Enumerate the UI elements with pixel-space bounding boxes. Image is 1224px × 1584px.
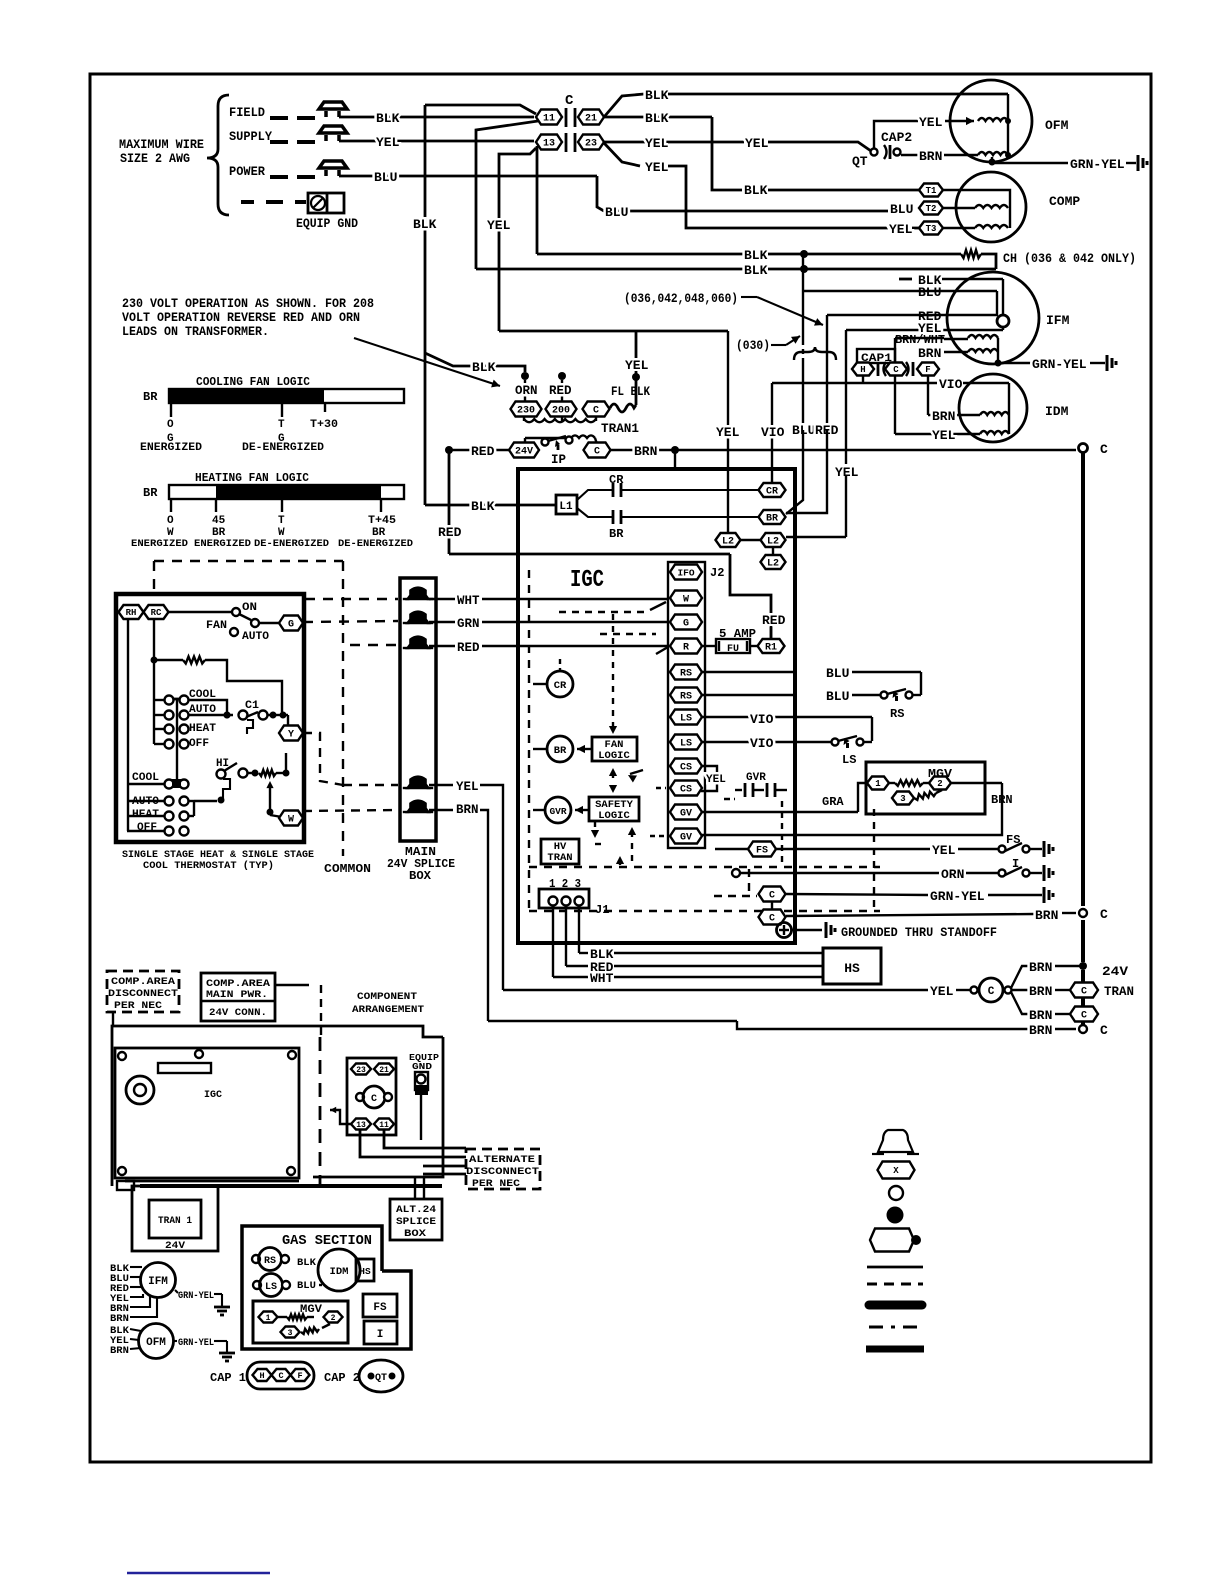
svg-text:H: H [860,365,865,375]
svg-text:ALTERNATE: ALTERNATE [469,1154,535,1166]
wire BRN bottom common [488,1020,737,1022]
wire F down to IDM BRN [927,376,929,415]
svg-text:21: 21 [379,1066,389,1075]
terminal Y [279,726,303,741]
switch RS [881,692,888,699]
arrow into contactor [330,1110,351,1124]
MGV small terminal 1 [259,1312,278,1323]
wire RED to 24V [445,446,453,454]
legend hexagon terminal [878,1162,915,1179]
svg-text:YEL: YEL [919,115,943,130]
terminal G [279,616,303,631]
svg-text:SIZE 2 AWG: SIZE 2 AWG [120,151,190,166]
terminal 200 [546,402,577,417]
legend thick line [869,1301,922,1310]
IDM coil 1 [980,412,1009,415]
MGV resistor 1-2 [889,782,895,784]
svg-text:J1: J1 [595,903,609,917]
svg-text:MAXIMUM WIRE: MAXIMUM WIRE [119,137,204,152]
OFM coil 1 [978,118,1008,121]
relay contact BR [577,508,613,517]
wire BRN from MGV 2 to GV2 [951,782,1002,784]
terminal 21 arr [374,1064,394,1075]
terminal BR [759,510,786,524]
svg-text:24V: 24V [165,1240,186,1252]
svg-text:RH: RH [126,608,137,618]
svg-text:GRN-YEL: GRN-YEL [178,1290,214,1302]
ground [1137,155,1140,171]
terminal 13 arr [351,1119,371,1130]
svg-text:ENERGIZED: ENERGIZED [140,442,202,454]
svg-text:BRN: BRN [1029,984,1052,999]
dashed divider [319,1037,322,1184]
terminal RH [119,605,144,619]
svg-text:BLU: BLU [890,202,913,217]
brace [207,95,229,215]
svg-text:L2: L2 [722,537,734,548]
RH vertical [127,619,129,831]
svg-text:YEL: YEL [889,222,913,237]
splice nut BRN [408,801,429,812]
dashed W to WHT [305,598,398,600]
motor IFM [947,272,1039,364]
svg-text:POWER: POWER [229,164,265,179]
svg-text:GV: GV [680,833,692,844]
svg-text:T+45: T+45 [368,515,396,527]
svg-text:24V: 24V [1102,964,1128,979]
YEL bus across [499,330,728,333]
svg-text:VIO: VIO [939,377,963,392]
svg-text:OFM: OFM [1045,118,1069,133]
svg-text:H: H [259,1371,264,1381]
terminal CR [759,483,786,497]
splice nut GRN [408,612,429,623]
svg-text:BRN: BRN [634,444,657,459]
COMP internal wires [943,190,1010,228]
svg-text:HS: HS [359,1266,371,1277]
terminal R1 [758,639,785,653]
node dot BLK [521,372,529,380]
svg-text:T2: T2 [926,204,937,214]
svg-text:VIO: VIO [761,425,785,440]
svg-text:BR: BR [143,486,158,500]
alternate disconnect dashed box [466,1149,540,1189]
svg-text:YEL: YEL [745,136,769,151]
svg-text:BLU: BLU [374,170,397,185]
wire nut power [319,161,347,168]
blue reference line [127,1572,270,1574]
svg-text:GRN-YEL: GRN-YEL [930,889,985,904]
valve MGV small box [253,1301,348,1343]
svg-text:T3: T3 [926,224,937,234]
svg-text:IGC: IGC [204,1090,222,1101]
svg-text:YEL: YEL [456,780,479,794]
switch LS [702,741,831,743]
svg-text:1: 1 [266,1314,271,1323]
wire BLK CH line2 [476,268,744,271]
svg-text:BLU: BLU [826,666,849,681]
svg-text:COMMON: COMMON [324,862,371,876]
ground [1043,865,1046,881]
wire YEL bus from 13 [499,148,536,331]
legend wire nut [878,1130,913,1152]
svg-text:ALT.24: ALT.24 [396,1204,436,1216]
svg-text:YEL: YEL [645,160,669,175]
terminal LS1 [670,710,702,725]
svg-text:(030): (030) [736,339,770,353]
svg-text:BLK: BLK [645,88,669,103]
svg-text:T: T [278,419,285,431]
terminal RS2 [670,688,702,703]
svg-text:13: 13 [356,1121,366,1130]
terminal CS2 [670,781,702,796]
dashed Y to YEL [303,733,343,785]
svg-text:YEL: YEL [932,843,956,858]
svg-text:COOL: COOL [132,772,159,784]
svg-text:BR: BR [143,390,158,404]
fan logic box [592,737,637,761]
svg-text:G: G [683,619,689,630]
svg-text:BRN: BRN [918,346,941,361]
wire from 11 to CH line2 [476,121,538,269]
wire BLK IFM stub [899,278,912,281]
wire LS1 loop [702,716,872,718]
svg-text:IFM: IFM [1046,313,1070,328]
CAP1 bars C-F [906,362,909,376]
terminal 11 arr [374,1119,394,1130]
svg-text:RED: RED [457,641,480,655]
wire BLU RS1 [702,671,795,673]
svg-text:I: I [377,1329,384,1341]
svg-text:PER NEC: PER NEC [114,1000,163,1012]
terminal 11 [536,110,562,125]
wires to alternate disconnect [384,1129,466,1148]
wire WHT from J1 pin1 to HS [552,906,554,977]
safety logic box [589,797,639,821]
svg-text:BLU: BLU [297,1280,316,1292]
svg-text:G: G [288,620,294,631]
svg-text:GRN-YEL: GRN-YEL [1032,357,1087,372]
wire BRN to TRAN [1011,989,1028,991]
wire BLK from 21 to T1 [604,116,712,119]
terminal C tran [1070,983,1098,998]
legend hexagon with dot [870,1229,914,1252]
svg-text:BLU: BLU [605,205,628,220]
svg-text:LEADS ON TRANSFORMER.: LEADS ON TRANSFORMER. [122,325,269,339]
wire BRN from C to right bus [611,449,1076,451]
base line [140,1184,442,1188]
svg-text:IDM: IDM [330,1266,349,1278]
svg-text:CAP 2: CAP 2 [324,1371,360,1385]
svg-text:RED: RED [762,613,786,628]
svg-text:VIO: VIO [750,712,774,727]
IDM coil 2 [980,431,1009,434]
relay contact CR [577,490,613,500]
wire GRN-YEL IFM to ground [998,362,1031,364]
svg-text:IP: IP [551,453,566,467]
motor COMP [956,172,1026,242]
relay coil CR circle [547,671,573,697]
svg-text:QT: QT [375,1373,387,1384]
node C top right [1079,444,1088,453]
svg-text:F: F [297,1371,302,1381]
HS box small [356,1259,374,1281]
svg-text:YEL: YEL [930,984,954,999]
sensor RS circle [252,1255,260,1263]
svg-text:BRN: BRN [1029,1023,1052,1038]
OFM internal wires [1007,94,1009,155]
HV TRAN box [541,839,579,864]
svg-text:BRN: BRN [932,409,955,424]
wire GRN-YEL OFM small [174,1340,177,1342]
svg-text:TRAN1: TRAN1 [601,421,639,436]
dashed W to BRN [303,810,398,811]
svg-text:IFM: IFM [148,1276,168,1288]
ground [1043,887,1046,903]
transformer secondary winding [571,435,595,438]
wire BLU power [339,175,597,178]
svg-text:VOLT OPERATION REVERSE RED AND: VOLT OPERATION REVERSE RED AND ORN [122,311,360,325]
svg-text:R1: R1 [765,643,777,654]
relay coil GVR circle [545,797,571,823]
terminal GV1 [670,805,702,820]
CAP1 terminal C [885,363,907,376]
svg-text:RS: RS [890,707,904,721]
svg-text:BLK: BLK [413,217,437,232]
svg-text:BLK: BLK [744,248,768,263]
terminal RS1 [670,665,702,680]
svg-text:C: C [371,1094,377,1105]
legend dash-dot line [869,1326,917,1329]
svg-text:C: C [565,93,574,109]
lower selector links [189,800,194,802]
svg-text:11: 11 [543,114,555,125]
wire BLU down to T2 [597,176,604,211]
svg-text:BR: BR [554,745,567,757]
selector bracket [154,699,164,701]
svg-text:3: 3 [900,794,905,804]
terminal C primary [583,402,610,417]
IFM coil 2 [968,349,998,352]
wire BLU down from CH to BR hex [802,254,804,291]
heat anticipator arrow [266,781,273,788]
svg-text:RS: RS [680,669,692,680]
svg-text:LS: LS [680,739,692,750]
terminal 230 [511,402,542,417]
terminal GV2 [670,829,702,844]
MGV small terminal 2 [324,1312,343,1323]
CAP1 terminal H [852,363,874,376]
svg-text:C: C [769,891,775,902]
svg-text:FU: FU [727,644,739,655]
svg-text:BOX: BOX [404,1228,427,1240]
svg-text:BR: BR [609,527,624,541]
terminal RC [144,605,169,619]
terminal C upper [759,887,786,902]
comp area main pwr box [201,973,275,1021]
svg-text:CAP 1: CAP 1 [210,1371,246,1385]
alt 24 splice box [414,1177,416,1199]
svg-text:YEL: YEL [487,218,511,233]
COMP coil 2 [975,225,1008,228]
gas section box [242,1226,411,1349]
wire BRN/WHT IFM [944,338,968,340]
svg-text:24V CONN.: 24V CONN. [209,1007,267,1019]
svg-text:23: 23 [585,139,597,150]
svg-text:COMP: COMP [1049,194,1080,209]
svg-text:ENERGIZED: ENERGIZED [131,538,188,550]
valve MGV box [866,762,985,814]
terminal L2 right [761,533,786,547]
svg-text:BRN: BRN [110,1345,129,1357]
grounded thru standoff [777,923,792,938]
OFM coil 2 [978,152,1008,155]
svg-text:TRAN 1: TRAN 1 [158,1215,192,1227]
svg-text:VIO: VIO [750,736,774,751]
svg-text:O: O [167,515,174,527]
svg-text:SUPPLY: SUPPLY [229,129,272,144]
svg-text:GVR: GVR [746,772,766,784]
IFM coil 1 [968,335,998,338]
equip gnd dashed lead [241,200,254,204]
legend very thick line [866,1346,924,1353]
svg-text:LS: LS [842,753,856,767]
svg-text:F: F [925,365,930,375]
svg-text:C: C [1100,907,1108,922]
svg-text:QT: QT [852,154,868,169]
terminal G [670,615,702,630]
svg-text:TRAN: TRAN [547,852,572,864]
MGV small terminal 3 [281,1327,300,1338]
wire GRN-YEL to ground [786,894,928,895]
MGV terminal 1 [867,777,889,790]
svg-text:13: 13 [543,139,555,150]
svg-text:BLU: BLU [826,689,849,704]
legend junction dot [887,1207,904,1224]
svg-text:C: C [988,986,995,998]
thermostat box [116,594,304,842]
svg-text:CH (036 & 042 ONLY): CH (036 & 042 ONLY) [1003,252,1136,266]
ground [214,1306,230,1309]
wire YEL from 23 to T3 [604,143,640,166]
IFM internal connect [997,338,999,363]
svg-text:230 VOLT OPERATION AS SHOWN. F: 230 VOLT OPERATION AS SHOWN. FOR 208 [122,297,374,311]
svg-text:LS: LS [265,1282,277,1293]
brace over BLU RED [794,347,836,360]
svg-text:ORN: ORN [515,384,538,398]
node dot RED lead [558,372,566,380]
terminal L1 [556,495,577,514]
main 24V splice box [400,578,436,841]
equip gnd symbol [308,193,344,213]
terminal FS [748,842,776,857]
svg-text:RED: RED [549,384,572,398]
svg-text:R: R [683,643,689,654]
svg-text:Y: Y [288,730,294,741]
svg-text:2: 2 [331,1314,336,1323]
svg-text:C: C [278,1371,283,1381]
svg-text:ORN: ORN [941,867,964,882]
wire BLK CH line1 [537,253,744,256]
wire BLK to L1 [425,504,556,507]
svg-text:C: C [769,914,775,925]
svg-text:CR: CR [766,487,778,498]
svg-text:C: C [893,365,899,375]
svg-text:C: C [1100,442,1108,457]
wire YEL from 23 to CAP2 [604,141,668,144]
contact bars 13-23 [565,133,568,152]
svg-text:HEATING FAN LOGIC: HEATING FAN LOGIC [195,471,309,485]
motor IDM [959,374,1027,442]
wire from main pwr [275,984,309,986]
svg-text:YEL: YEL [376,135,400,150]
small base box [117,1181,134,1190]
svg-text:RC: RC [151,608,162,618]
resistor CH [961,250,981,258]
svg-text:DE-ENERGIZED: DE-ENERGIZED [338,538,413,550]
svg-text:C: C [1081,1011,1087,1022]
svg-text:(036,042,048,060): (036,042,048,060) [624,292,738,306]
svg-text:WHT: WHT [457,594,480,608]
svg-text:230: 230 [517,406,535,417]
svg-text:BLK: BLK [472,360,496,375]
svg-text:CS: CS [680,785,692,796]
svg-text:BLK: BLK [645,111,669,126]
svg-text:BRN: BRN [110,1313,129,1325]
contactor C circle arr [356,1093,364,1101]
IGC panel [115,1048,299,1178]
wire BLK field [339,116,534,119]
terminal C secondary [584,443,611,458]
VIO from CR hex up [771,383,773,483]
svg-text:2: 2 [937,779,942,789]
IGC control box [518,469,795,943]
svg-text:LOGIC: LOGIC [598,810,630,822]
svg-text:BLK: BLK [297,1257,317,1269]
svg-text:WHT: WHT [590,971,614,986]
border frame [90,74,1151,1462]
legend solid line [867,1266,923,1269]
svg-text:LS: LS [680,714,692,725]
wire BLK from J1 pin3 to HS [578,906,580,953]
svg-text:FL BLK: FL BLK [611,385,650,399]
comp area disconnect dashed box [107,971,179,1012]
MGV terminal 3 [892,792,914,805]
terminal 21 [578,110,604,125]
svg-text:X: X [893,1166,899,1176]
fan switch [168,611,232,613]
ground [219,1352,235,1355]
svg-text:RS: RS [264,1256,276,1267]
svg-text:BRN: BRN [1035,908,1058,923]
svg-text:BOX: BOX [409,869,432,883]
svg-text:ARRANGEMENT: ARRANGEMENT [352,1004,424,1016]
IFM switch circle [997,315,1009,327]
transformer TRAN1 primary winding [524,419,596,422]
splice nut YEL [408,777,429,788]
svg-text:GND: GND [412,1062,433,1072]
terminal 13 [536,135,562,150]
IGC panel screws [118,1052,126,1060]
wire H to VIO line [862,376,864,383]
svg-text:FS: FS [373,1302,387,1314]
terminal T1 [919,184,943,197]
dashed G to GRN [303,621,398,622]
svg-text:LOGIC: LOGIC [598,750,630,762]
box I [364,1321,397,1344]
svg-text:C: C [593,406,599,417]
svg-text:BRN/WHT: BRN/WHT [895,333,945,347]
